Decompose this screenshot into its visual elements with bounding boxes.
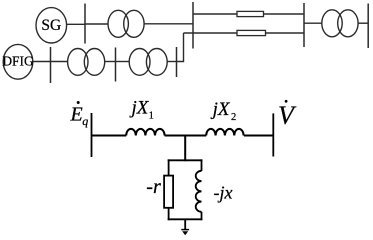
wire B3 to T4 (304, 22, 322, 24)
bus B7 (176, 47, 178, 77)
transmission line L2 wire (184, 32, 305, 34)
svg-text:-jx: -jx (214, 183, 233, 203)
generator SG (36, 8, 67, 43)
wire DFIG to bus B5 (33, 61, 51, 63)
inductor jX2 (206, 129, 243, 136)
transformer T1 (108, 10, 144, 37)
bus B1 (84, 4, 86, 44)
transformer T2 (68, 49, 105, 76)
bus B6 (115, 48, 117, 82)
svg-text:V: V (278, 101, 297, 130)
wire T3 to bus B7 (167, 61, 177, 63)
svg-text:SG: SG (41, 17, 61, 34)
wire left branch lower (168, 208, 170, 220)
bus B4 (367, 4, 369, 49)
wire B5 to T2 (51, 61, 68, 63)
inductor jX1 (126, 129, 164, 136)
transformer T4 (322, 10, 358, 37)
wire B6 to T3 (116, 61, 130, 63)
svg-text:jX: jX (129, 97, 150, 118)
svg-text:2: 2 (231, 112, 236, 123)
wire T1 to bus B2 (144, 23, 193, 25)
terminal bar V (272, 113, 274, 156)
ground (181, 230, 189, 236)
transmission line L1 box (237, 11, 264, 16)
wire right branch upper (201, 159, 203, 171)
wire step from B7 up to line L2 (177, 33, 184, 62)
wire B1 to T1 (85, 23, 108, 25)
svg-text:DFIG: DFIG (2, 53, 34, 68)
svg-text:-r: -r (146, 176, 161, 198)
svg-text:E: E (70, 103, 83, 125)
inductor -jx (196, 171, 202, 212)
wire Eq to jX1 (92, 135, 127, 137)
wire jX2 to V bar (244, 135, 273, 137)
svg-text:q: q (82, 114, 88, 128)
bus B5 (50, 47, 52, 83)
bus B3 (303, 3, 305, 47)
transmission line L1 wire (193, 13, 304, 15)
wire ground stub (184, 219, 186, 229)
svg-text:1: 1 (149, 110, 154, 121)
transmission line L2 box (237, 30, 266, 35)
wire parallel bottom bar (168, 218, 203, 220)
wire right branch lower (201, 212, 203, 220)
generator DFIG (2, 44, 34, 79)
label Eq dot (77, 101, 80, 104)
transformer T3 (129, 49, 167, 76)
wire T4 to bus B4 (358, 22, 368, 24)
wire T2 to bus B6 (105, 61, 116, 63)
wire left branch upper (168, 159, 170, 175)
resistor -r (164, 176, 173, 208)
label V dot (285, 100, 288, 103)
wire parallel top bar (168, 159, 203, 161)
bus B2 (192, 2, 194, 49)
wire jX1 to jX2 through node (165, 135, 207, 137)
wire node stub down (184, 136, 186, 162)
terminal bar Eq (91, 113, 93, 157)
svg-text:jX: jX (210, 99, 231, 120)
wire SG to bus B1 (67, 23, 85, 25)
